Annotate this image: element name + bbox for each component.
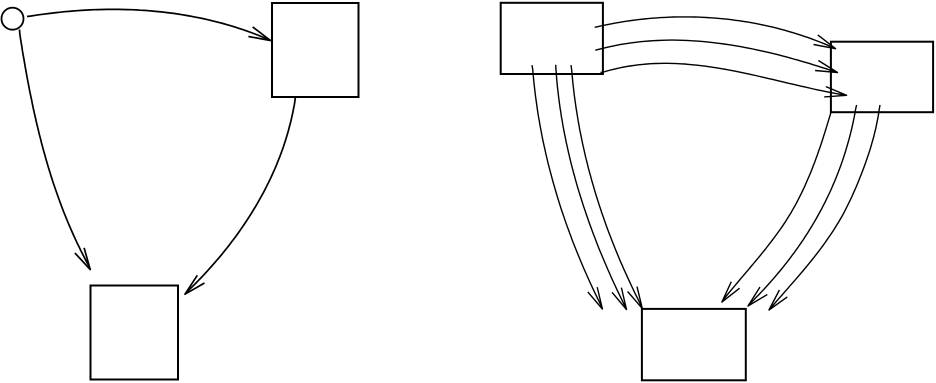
arrow: start node to state box S1 xyxy=(27,9,271,40)
arrow 3: box T2 to box T3 xyxy=(769,105,880,310)
arrow 3: box T1 to box T3 xyxy=(571,65,642,308)
box T1 (right diagram, top left) xyxy=(501,3,603,74)
start node (small circle) xyxy=(2,8,24,30)
arrow: state box S1 to state box S2 xyxy=(185,97,295,294)
arrow 2: box T1 to box T3 xyxy=(556,65,627,310)
arrow 2: box T1 to box T2 xyxy=(595,40,837,72)
arrow: start node to state box S2 xyxy=(20,30,91,270)
box T2 (right diagram, right) xyxy=(831,42,933,113)
box T3 (right diagram, bottom) xyxy=(642,309,746,380)
arrow 2: box T2 to box T3 xyxy=(748,105,857,306)
arrow 1: box T2 to box T3 xyxy=(722,111,832,302)
state box S2 (left diagram, bottom) xyxy=(91,286,179,380)
arrow 1: box T1 to box T2 xyxy=(595,17,836,49)
arrow 1: box T1 to box T3 xyxy=(532,65,602,309)
arrow 3: box T1 to box T2 xyxy=(601,63,847,97)
state box S1 (left diagram, top right) xyxy=(272,3,359,97)
